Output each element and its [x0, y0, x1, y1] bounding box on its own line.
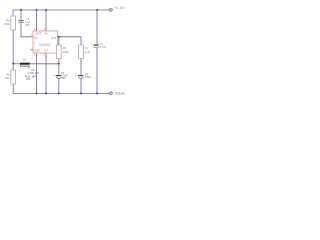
pin 1 GND stub [36, 53, 38, 57]
pin 5 CV stub [45, 53, 47, 57]
svg-text:OUT: OUT [51, 36, 57, 40]
resistor Ra [11, 16, 16, 30]
svg-text:10k: 10k [5, 76, 10, 80]
terminal V+ [109, 8, 112, 11]
capacitor C5 [18, 20, 23, 22]
resistor Rb [11, 70, 16, 84]
node E x13 y63 [12, 63, 14, 65]
wire OUT net [60, 37, 82, 45]
node H rail2 x58.8 [58, 92, 60, 94]
capacitor C3 electrolytic [78, 75, 83, 77]
wire top V+ rail [13, 9, 109, 11]
node G rail2 x46 [45, 92, 47, 94]
svg-text:100k: 100k [4, 22, 11, 26]
pin 2 TR stub [31, 36, 34, 38]
svg-text:16V: 16V [26, 78, 31, 81]
capacitor C4 electrolytic [56, 75, 61, 77]
node C rail x46 [45, 9, 47, 11]
wire R3 to C3 [80, 59, 82, 76]
svg-text:NE555: NE555 [39, 43, 50, 47]
node D rail x97 [96, 9, 98, 11]
svg-text:47uF: 47uF [100, 45, 107, 49]
node F rail2 x36.5 [36, 92, 38, 94]
svg-text:GND: GND [115, 91, 124, 96]
node B rail x36.5 [36, 9, 38, 11]
svg-text:RST: RST [36, 32, 42, 36]
capacitor C2 electrolytic [93, 44, 98, 46]
wire R2 to node H [58, 59, 60, 64]
svg-text:390k: 390k [63, 50, 70, 54]
wire rail to pin8 [45, 10, 47, 28]
IC U1 NE555 [33, 31, 58, 53]
wire Rb to bottom rail [13, 84, 109, 93]
wire rail to C2 [96, 10, 98, 45]
wire C3 to rail [80, 78, 82, 93]
svg-text:TR: TR [34, 36, 38, 40]
svg-text:C1: C1 [23, 58, 27, 62]
wire pin1 to bottom rail [36, 57, 38, 94]
resistor R2 [56, 45, 61, 59]
svg-text:GND: GND [34, 48, 40, 52]
wire rail to pin4 [36, 10, 38, 28]
svg-text:16V: 16V [61, 77, 66, 80]
svg-text:+L 3V: +L 3V [114, 5, 125, 10]
svg-text:4.7uF 16V: 4.7uF 16V [27, 72, 39, 75]
svg-text:47uF: 47uF [85, 76, 91, 79]
wire C4 to rail [58, 78, 60, 93]
node A rail x21 [20, 9, 22, 11]
terminal GND [109, 92, 112, 95]
wire Ra bottom to node E [12, 30, 14, 64]
node I rail2 x81 [80, 92, 82, 94]
wire rail to Ra [12, 10, 14, 16]
svg-text:4.7k: 4.7k [85, 50, 91, 54]
resistor R3 [79, 45, 84, 59]
wire out to R2 [58, 37, 60, 45]
wire rail to C5 [20, 10, 22, 20]
wire node H to C4 [58, 64, 60, 75]
pin 8 V+ stub [45, 28, 47, 32]
node J rail2 x97 [96, 92, 98, 94]
pin 4 RST stub [36, 28, 38, 32]
pin 3 OUT stub [58, 36, 60, 38]
pin 6 THR stub [31, 49, 34, 51]
wire C5 to TR pin [21, 22, 31, 37]
node K out x58.8 [58, 36, 60, 38]
capacitor C1 electrolytic [20, 63, 30, 65]
wire node E to Rb [12, 64, 14, 71]
wire node E to C1 [13, 63, 19, 65]
wire C2 to rail [96, 48, 98, 94]
wire pin5 to bottom rail [45, 57, 47, 94]
wire C1 to node H [30, 63, 59, 65]
svg-text:63V: 63V [25, 23, 30, 27]
node H2 x58.8 y63.8 [58, 63, 60, 65]
svg-text:CV: CV [44, 48, 48, 52]
svg-text:V+: V+ [45, 32, 49, 36]
